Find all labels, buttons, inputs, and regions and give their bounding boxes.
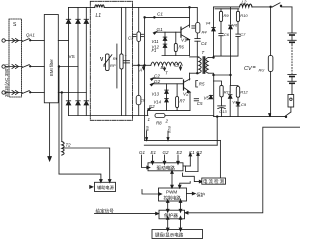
svg-text:R7: R7 xyxy=(180,99,186,104)
svg-text:保护: 保护 xyxy=(196,192,205,199)
output return bus xyxy=(213,74,215,117)
wires to rectifier xyxy=(58,40,68,42)
capacitor network C3 xyxy=(138,7,140,95)
resistor R12 diode C9 xyxy=(236,87,239,98)
input terminals L1 L2 L3 xyxy=(2,39,22,94)
svg-text:B: B xyxy=(161,65,164,70)
terminal labels G1 E1 G2 E2 C1 C2 xyxy=(139,150,203,155)
svg-text:T: T xyxy=(165,71,168,76)
ground arrow xyxy=(49,103,51,157)
signal rail wires xyxy=(145,139,221,141)
svg-text:L2: L2 xyxy=(242,0,247,5)
svg-text:C7: C7 xyxy=(240,32,246,37)
svg-text:L1: L1 xyxy=(96,13,102,19)
EMI filter xyxy=(44,15,58,103)
wires protector to display xyxy=(167,219,169,229)
resistor R11 capacitor C13 xyxy=(220,85,223,97)
svg-text:E1: E1 xyxy=(151,150,157,155)
svg-text:G2: G2 xyxy=(163,150,170,155)
switch battery return xyxy=(285,112,291,116)
svg-text:R12: R12 xyxy=(240,89,248,94)
rail wire xyxy=(214,55,231,57)
wire reference signal xyxy=(95,213,156,215)
resistors R9 R10 capacitors C6 C7 xyxy=(220,9,222,12)
capacitor C8 xyxy=(136,96,141,105)
svg-text:C4: C4 xyxy=(201,41,207,46)
svg-text:RU: RU xyxy=(259,68,265,73)
wire battery sense xyxy=(188,127,300,213)
svg-text:C5: C5 xyxy=(197,101,203,106)
svg-text:C9: C9 xyxy=(241,102,247,107)
wire to current-detect box xyxy=(183,173,200,182)
wire PWM output xyxy=(187,193,193,195)
svg-text:R4: R4 xyxy=(202,30,208,35)
wires into drive box xyxy=(142,155,148,168)
transistor V2 xyxy=(183,80,185,90)
winding with taps A B C xyxy=(134,64,151,66)
svg-text:T2: T2 xyxy=(66,143,72,148)
svg-text:2: 2 xyxy=(165,119,169,124)
wires drive to PWM xyxy=(171,171,173,188)
svg-text:V5: V5 xyxy=(204,96,210,101)
svg-text:=: = xyxy=(253,65,256,71)
svg-text:3N1E(AC 380V): 3N1E(AC 380V) xyxy=(4,64,9,97)
resistor RU sense divider xyxy=(270,6,272,8)
inductor L1 on DC+ bus xyxy=(69,6,95,8)
wire into PWM xyxy=(142,190,159,195)
svg-text:G1: G1 xyxy=(157,27,164,32)
wire V1 collector xyxy=(189,7,191,27)
svg-text:V1: V1 xyxy=(181,38,187,43)
module rail wires xyxy=(116,44,118,88)
inductor L2 xyxy=(240,4,253,7)
svg-text:R6: R6 xyxy=(179,45,185,50)
svg-text:C1: C1 xyxy=(157,12,163,17)
svg-text:控制电路: 控制电路 xyxy=(164,194,182,201)
svg-text:V4: V4 xyxy=(206,21,212,26)
auxiliary power box xyxy=(95,182,116,191)
svg-text:RP: RP xyxy=(110,63,116,68)
svg-text:V14: V14 xyxy=(154,100,162,105)
transistor V1 xyxy=(180,27,182,37)
breaker QA1 xyxy=(22,39,44,94)
svg-text:F1: F1 xyxy=(152,48,157,53)
svg-text:T: T xyxy=(202,50,205,55)
svg-text:QA1: QA1 xyxy=(26,33,35,38)
svg-text:V13: V13 xyxy=(152,92,160,97)
secondary return rail xyxy=(214,74,231,76)
svg-text:V6: V6 xyxy=(232,23,238,28)
plug contacts xyxy=(12,39,19,95)
T2 to aux box xyxy=(64,148,110,180)
rectifier diodes bottom row xyxy=(66,101,88,105)
connector box S xyxy=(9,19,22,97)
svg-text:V2: V2 xyxy=(183,92,189,97)
capacitor C5 xyxy=(194,98,198,100)
resistor R8 shunt pins 1 2 xyxy=(155,114,165,118)
resistor R5 xyxy=(196,81,198,88)
C1 C2 up arrows into bends xyxy=(189,156,191,167)
wire primary to V2 xyxy=(189,73,191,80)
node C1 xyxy=(154,17,156,19)
svg-text:驱动电路: 驱动电路 xyxy=(157,164,176,171)
wires PWM to protector xyxy=(167,202,169,210)
keyboard display box xyxy=(152,230,203,239)
svg-text:G1: G1 xyxy=(139,150,146,155)
svg-text:C13: C13 xyxy=(219,109,227,114)
svg-text:C2: C2 xyxy=(154,74,160,79)
svg-text:键盘/显示电路: 键盘/显示电路 xyxy=(155,232,184,239)
rectifier diodes top row xyxy=(66,19,88,23)
svg-text:R9: R9 xyxy=(224,13,230,18)
rectifier VS columns xyxy=(69,7,87,115)
resistor R4 snubber xyxy=(196,7,198,22)
switch to battery xyxy=(272,3,280,7)
svg-text:R8: R8 xyxy=(156,121,162,126)
svg-text:给定信号: 给定信号 xyxy=(96,208,115,215)
svg-text:VS: VS xyxy=(69,54,75,59)
protector box xyxy=(159,210,185,219)
transformer T2 xyxy=(62,142,64,156)
svg-text:R10: R10 xyxy=(240,13,248,18)
svg-text:E2: E2 xyxy=(177,150,183,155)
svg-text:保护器: 保护器 xyxy=(164,212,178,219)
shunt box xyxy=(288,95,294,108)
node E2 xyxy=(148,108,151,111)
PWM controller box xyxy=(159,188,187,201)
svg-text:EMI filter: EMI filter xyxy=(49,58,54,76)
node G1 xyxy=(153,32,156,35)
svg-text:电流检测: 电流检测 xyxy=(203,178,225,185)
svg-text:E2: E2 xyxy=(149,104,155,109)
secondary DC+ rail xyxy=(213,7,215,57)
svg-text:G2: G2 xyxy=(154,79,161,84)
node C2 xyxy=(151,78,154,81)
battery GB xyxy=(288,33,296,95)
svg-text:辅助电源: 辅助电源 xyxy=(97,184,115,191)
DC- bus wire xyxy=(69,115,149,117)
diode V7 xyxy=(231,75,239,87)
svg-text:R5: R5 xyxy=(199,82,205,87)
wire feeder to rail xyxy=(144,17,146,19)
current detect box xyxy=(202,178,226,184)
svg-text:V11: V11 xyxy=(152,39,159,44)
drive circuit box xyxy=(148,163,183,171)
varistor V with Rt RP xyxy=(106,54,110,71)
module boundary (dash-dot) xyxy=(90,1,132,120)
svg-text:PWM: PWM xyxy=(166,189,177,194)
node G2 xyxy=(150,83,153,86)
wires to transformer T2 xyxy=(58,66,60,68)
svg-text:C6: C6 xyxy=(224,32,230,37)
resistor in module xyxy=(120,54,123,69)
capacitor C2 xyxy=(124,60,130,62)
svg-text:R10: R10 xyxy=(167,126,171,134)
